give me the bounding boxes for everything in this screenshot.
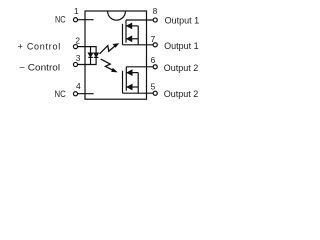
svg-text:8: 8 <box>153 6 158 16</box>
LED D1 <box>89 53 93 57</box>
pin 6 terminal <box>153 65 157 69</box>
svg-text:7: 7 <box>151 34 156 44</box>
wire pin 5 to MOSFET 2 gate/source <box>123 92 154 94</box>
pin 2 terminal <box>73 45 77 49</box>
MOSFET Q2 gate <box>122 71 124 93</box>
svg-text:Output 1: Output 1 <box>164 41 199 51</box>
package notch <box>108 11 126 20</box>
light arrow to Q1 <box>100 45 116 54</box>
wire pin 7 to MOSFET 1 gate/source <box>123 44 154 46</box>
svg-text:Output 2: Output 2 <box>164 89 199 99</box>
MOSFET Q1 channel <box>125 20 127 43</box>
LED D2 <box>94 53 98 57</box>
wire pin 1 <box>78 19 94 21</box>
pin 7 terminal <box>153 43 157 47</box>
MOSFET Q1 gate <box>122 24 124 45</box>
pin 8 terminal <box>153 18 157 22</box>
svg-text:+ Control: + Control <box>18 41 61 51</box>
pin 1 terminal <box>73 18 77 22</box>
svg-text:Output 2: Output 2 <box>164 63 199 73</box>
MOSFET Q2 source bus <box>137 73 139 94</box>
LED D1 branch stub <box>90 47 92 54</box>
pin 4 terminal <box>73 92 77 96</box>
svg-text:1: 1 <box>74 6 79 16</box>
svg-text:4: 4 <box>76 81 81 91</box>
svg-text:2: 2 <box>75 35 80 45</box>
wire pin 3 rail <box>78 64 97 66</box>
svg-text:NC: NC <box>55 89 67 99</box>
wire pin 6 to MOSFET 2 drain <box>126 66 153 68</box>
pin 3 terminal <box>73 62 77 66</box>
pin 5 terminal <box>153 91 157 95</box>
wire pin 2 rail <box>78 46 97 48</box>
LED D2 branch stub <box>95 47 97 54</box>
MOSFET Q2 source lead B <box>126 86 138 88</box>
svg-text:5: 5 <box>151 81 156 91</box>
wire pin 4 <box>78 93 94 95</box>
svg-text:3: 3 <box>76 53 81 63</box>
svg-text:NC: NC <box>55 14 66 24</box>
light arrow to Q2 <box>101 59 114 70</box>
wire pin 8 to MOSFET 1 drain <box>126 19 153 21</box>
MOSFET Q1 source bus <box>137 26 139 45</box>
svg-text:6: 6 <box>151 55 156 65</box>
MOSFET Q1 source lead A <box>126 25 138 27</box>
package body U1 <box>85 11 147 99</box>
svg-text:− Control: − Control <box>19 63 60 73</box>
MOSFET Q1 source lead B <box>126 38 138 40</box>
svg-text:Output 1: Output 1 <box>165 16 200 26</box>
MOSFET Q2 channel <box>125 67 127 91</box>
MOSFET Q2 source lead A <box>126 72 138 74</box>
